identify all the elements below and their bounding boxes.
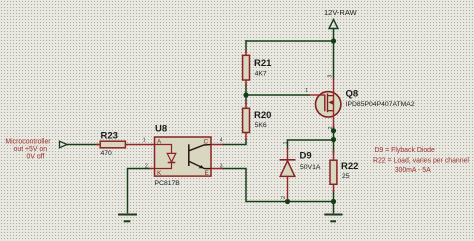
svg-text:1: 1: [305, 88, 308, 94]
wire: U8 pin 2 to left ground: [128, 169, 150, 213]
triangle: [280, 161, 295, 177]
emitter arrowhead: [199, 165, 204, 168]
LED cathode bar: [168, 162, 176, 164]
svg-text:PC817B: PC817B: [155, 180, 181, 187]
wire: junction left to D9 cathode: [288, 140, 334, 149]
svg-text:3: 3: [220, 164, 223, 170]
svg-text:2: 2: [145, 164, 148, 170]
emitter diagonal: [189, 161, 211, 168]
svg-text:12V-RAW: 12V-RAW: [324, 8, 358, 17]
svg-text:5K6: 5K6: [255, 122, 267, 129]
transistor Q8 (P-MOSFET): [305, 75, 415, 130]
svg-text:1: 1: [283, 141, 289, 144]
drain/source vertical + pins: [333, 79, 335, 129]
diode D9: [280, 141, 321, 200]
junction dot at drain node upper: [331, 128, 336, 133]
pin stubs: [149, 145, 223, 169]
junction dot at R22 bottom / ground bus: [331, 199, 336, 204]
annotation: microcontroller note: [5, 138, 51, 160]
svg-text:out +5V on: out +5V on: [14, 146, 48, 153]
svg-text:R23: R23: [101, 131, 118, 142]
gate bar: [324, 95, 326, 112]
svg-text:E: E: [205, 170, 209, 177]
LED cathode feed: [155, 163, 172, 169]
junction dot at drain node / D9 branch: [331, 137, 336, 142]
svg-text:Microcontroller: Microcontroller: [5, 138, 51, 145]
svg-text:U8: U8: [155, 123, 167, 134]
collector diagonal: [189, 145, 211, 151]
wire: gate junction down to R20 top: [245, 95, 247, 104]
anode pin: [287, 176, 289, 200]
optocoupler U8 (PC817B): [143, 123, 223, 187]
svg-text:K: K: [157, 170, 162, 177]
svg-text:R22 = Load, varies per channel: R22 = Load, varies per channel: [373, 158, 469, 165]
svg-text:A: A: [157, 139, 162, 146]
wire: R21 bottom to gate junction: [245, 84, 247, 95]
channel bar: [327, 94, 329, 113]
resistor R22: [330, 150, 358, 193]
wire: top horizontal from R21 column to power rail: [246, 40, 334, 42]
wire: down to R21 top: [245, 41, 247, 52]
svg-text:470: 470: [101, 150, 113, 157]
cathode bar: [280, 159, 296, 161]
svg-text:D9: D9: [300, 150, 312, 161]
svg-text:25: 25: [342, 173, 350, 180]
svg-text:300mA - 5A: 300mA - 5A: [395, 167, 431, 174]
wire: R22 bottom to ground junction: [333, 191, 335, 202]
svg-text:0V off: 0V off: [27, 153, 45, 160]
input terminal triangle: [60, 141, 68, 148]
resistor R21: [243, 50, 273, 86]
right ground: [324, 215, 342, 222]
svg-text:1: 1: [143, 138, 146, 144]
resistor R23: [96, 131, 155, 157]
phototransistor base bar: [188, 144, 190, 166]
top tap: [328, 95, 334, 97]
wire: right ground stub: [333, 202, 335, 213]
svg-text:R21: R21: [254, 58, 272, 69]
svg-text:R20: R20: [254, 110, 271, 121]
LED anode feed: [155, 145, 172, 154]
arrow (P-channel): [328, 100, 333, 104]
svg-text:D9 = Flyback Diode: D9 = Flyback Diode: [375, 147, 435, 154]
resistor R20: [243, 102, 272, 140]
bottom tap: [328, 110, 334, 112]
svg-text:Q8: Q8: [346, 88, 359, 99]
svg-text:2: 2: [328, 126, 334, 129]
annotation: D9 / R22 notes: [373, 147, 469, 174]
svg-text:50V1A: 50V1A: [300, 164, 321, 171]
wire: bottom ground bus from U8 pin 3: [223, 169, 334, 202]
svg-text:4K7: 4K7: [255, 71, 267, 78]
svg-text:R22: R22: [341, 161, 358, 172]
wire: gate horizontal: [246, 94, 309, 96]
junction dot at power rail: [331, 38, 336, 43]
left ground: [118, 215, 137, 222]
gate lead: [309, 94, 325, 96]
wire: input terminal to R23: [67, 144, 98, 146]
svg-text:3: 3: [328, 75, 334, 78]
wire: 12V-RAW arrow stem down to junction and on to Q8 source: [333, 29, 335, 79]
cathode pin: [287, 148, 289, 160]
junction dot at D9 anode / ground bus: [285, 199, 290, 204]
svg-text:IPD85P04P407ATMA2: IPD85P04P407ATMA2: [346, 101, 415, 108]
wire: Q8 drain down to D9/R22 junction: [333, 126, 335, 153]
svg-text:2: 2: [281, 196, 287, 199]
LED triangle: [167, 153, 176, 162]
body: [155, 137, 212, 176]
svg-text:4: 4: [220, 138, 223, 144]
power terminal 12V-RAW arrow: [329, 20, 338, 29]
wire: R20 bottom down and left to U8 pin 4: [223, 139, 246, 145]
svg-text:C: C: [204, 139, 209, 146]
junction dot at gate divider: [243, 92, 248, 97]
